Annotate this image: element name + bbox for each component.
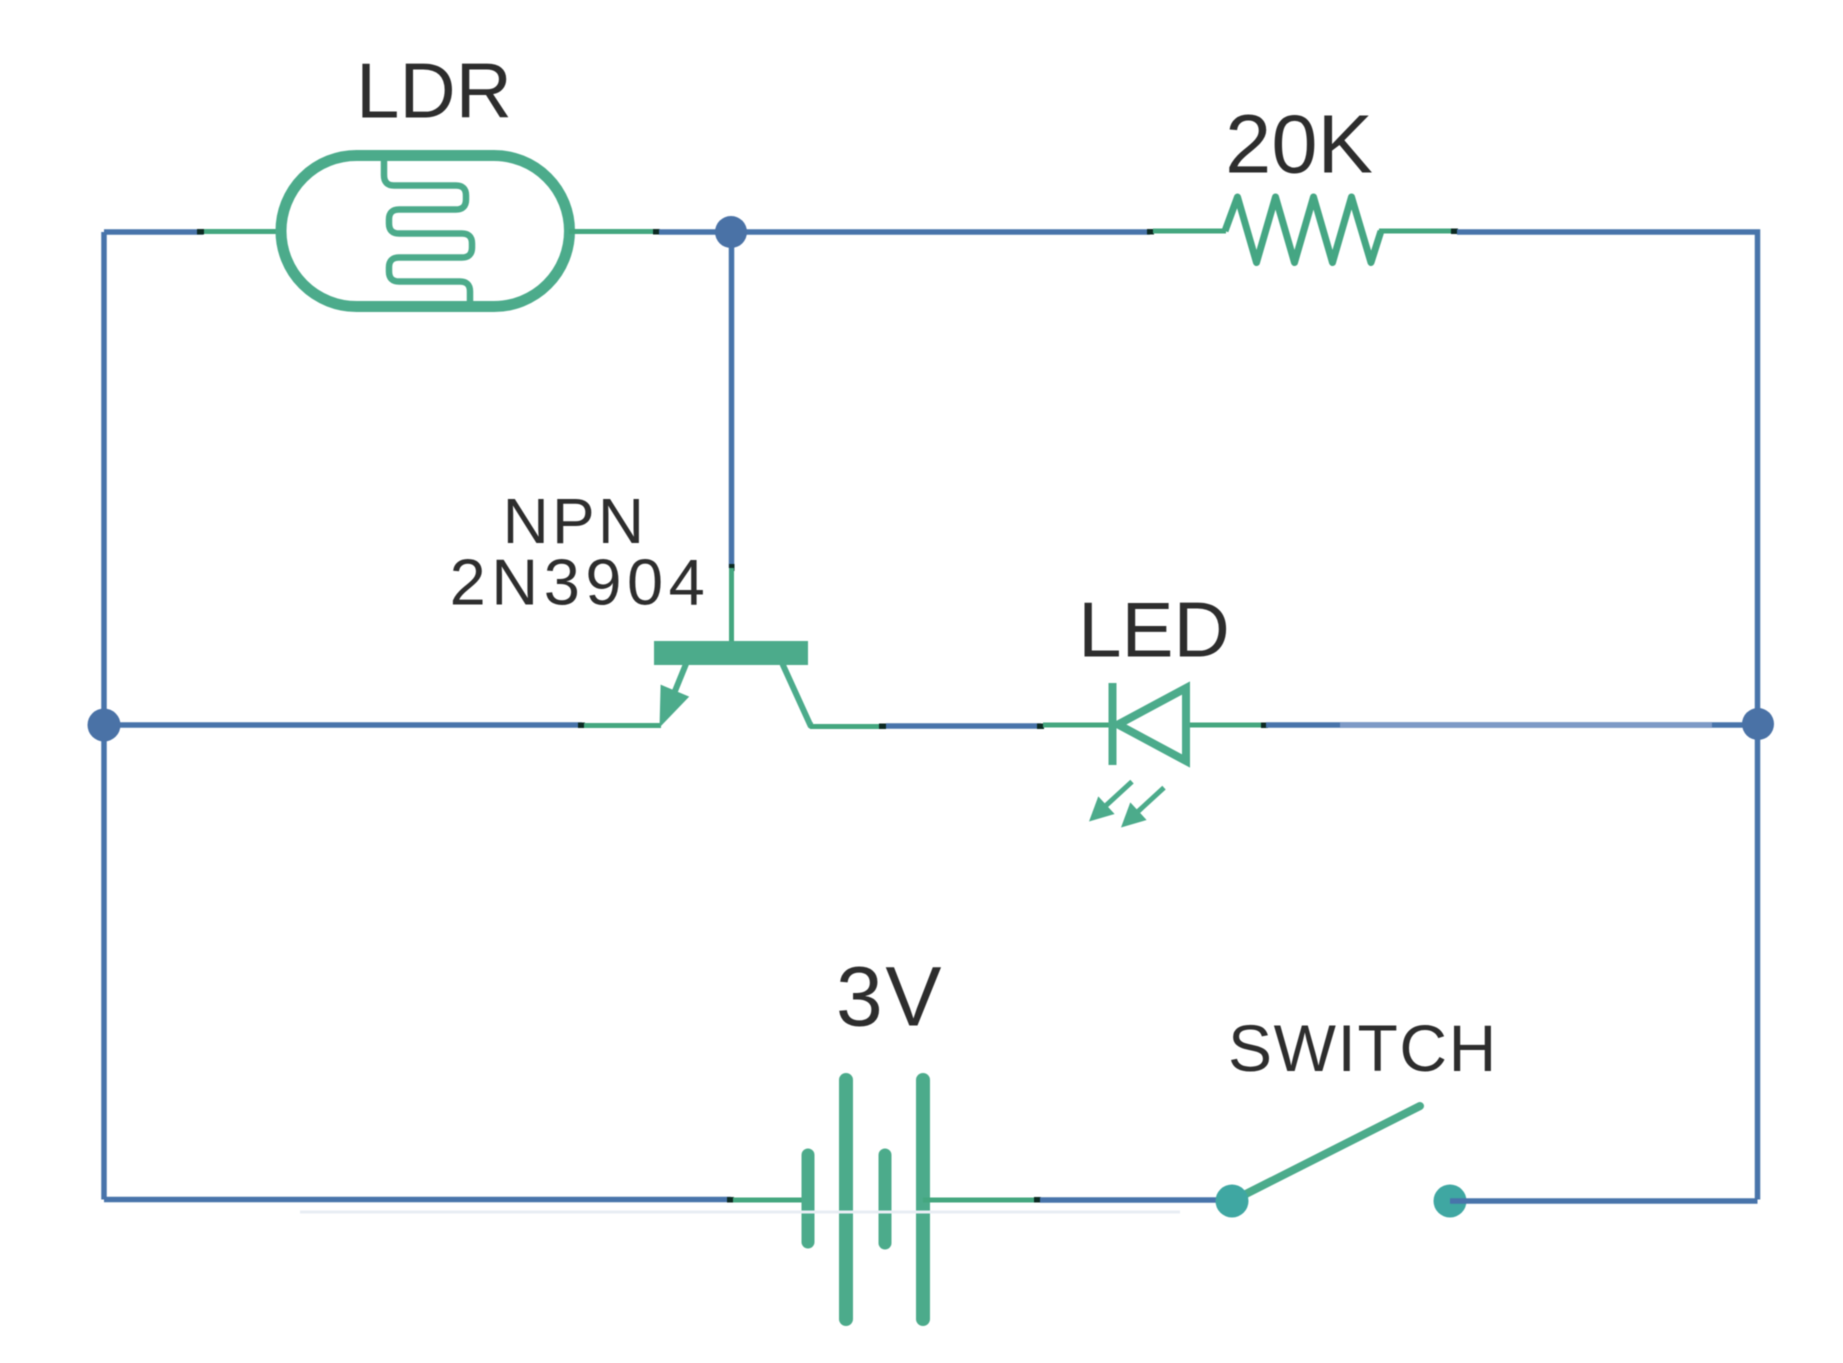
node transition dot D bbox=[1451, 229, 1458, 235]
wire resistor left green lead bbox=[1153, 229, 1226, 234]
label 3V bbox=[836, 950, 944, 1044]
wire battery right green lead bbox=[923, 1198, 1037, 1203]
battery 3V plate short 1 bbox=[802, 1155, 815, 1242]
wire LDR right green lead bbox=[569, 229, 657, 234]
photoresistor LDR serpentine element bbox=[384, 151, 472, 308]
wire resistor right green lead bbox=[1379, 229, 1455, 234]
node transition dot F bbox=[578, 723, 585, 729]
node junction dot top bbox=[715, 216, 747, 248]
wire middle right light blue overlap bbox=[1340, 722, 1712, 728]
label NPN bbox=[503, 485, 648, 557]
battery 3V plate short 2 bbox=[879, 1155, 892, 1243]
photoresistor LDR body bbox=[281, 156, 570, 307]
wire bottom middle blue segment bbox=[1040, 1197, 1232, 1203]
wire base vertical green lead bbox=[729, 568, 734, 642]
svg-text:SWITCH: SWITCH bbox=[1228, 1011, 1498, 1085]
wire LED left green lead bbox=[1043, 723, 1110, 728]
wire collector green lead bbox=[810, 724, 883, 729]
wire top horizontal blue left segment bbox=[104, 229, 203, 235]
node transition dot K bbox=[1034, 1197, 1041, 1203]
node transition dot C bbox=[1147, 229, 1154, 235]
node transition dot J bbox=[727, 1197, 734, 1203]
battery 3V plate tall 2 bbox=[916, 1080, 930, 1319]
LED light arrow 2 bbox=[1121, 788, 1164, 828]
wire left vertical blue segment bbox=[101, 232, 107, 1200]
node transition dot A bbox=[197, 229, 204, 235]
wire right vertical lower blue segment bbox=[1755, 724, 1761, 1200]
svg-text:2N3904: 2N3904 bbox=[450, 545, 711, 618]
label SWITCH bbox=[1228, 1011, 1498, 1085]
wire base vertical blue segment bbox=[729, 232, 735, 568]
label 20K bbox=[1225, 98, 1373, 191]
LED cathode bar bbox=[1109, 683, 1117, 765]
wire top middle blue segment bbox=[659, 229, 1150, 235]
transistor emitter line with arrow bbox=[660, 664, 690, 728]
svg-text:20K: 20K bbox=[1225, 98, 1373, 191]
battery 3V plate tall 1 bbox=[839, 1080, 853, 1319]
wire emitter green lead bbox=[584, 723, 661, 728]
node transition dot B bbox=[653, 229, 660, 235]
LED light arrow 1 bbox=[1089, 782, 1132, 822]
switch pole dot left bbox=[1216, 1185, 1249, 1218]
switch lever bbox=[1232, 1106, 1420, 1201]
wire middle blue segment between transistor and LED bbox=[886, 723, 1041, 729]
LED triangle bbox=[1118, 688, 1186, 761]
switch pole dot right bbox=[1434, 1185, 1467, 1218]
wire top right blue segment bbox=[1457, 232, 1758, 724]
node transition dot H bbox=[1037, 724, 1044, 730]
transistor NPN 2N3904 base bar bbox=[654, 641, 808, 665]
transistor collector line bbox=[783, 664, 814, 726]
wire bottom faint shadow line bbox=[300, 1211, 1180, 1214]
wire LED right green lead bbox=[1190, 723, 1264, 728]
resistor 20K zigzag bbox=[1225, 197, 1381, 263]
svg-text:3V: 3V bbox=[836, 950, 944, 1044]
wire middle left blue segment bbox=[104, 722, 582, 728]
node transition dot G bbox=[879, 724, 886, 730]
label LDR bbox=[356, 47, 512, 135]
node junction dot right bbox=[1742, 708, 1774, 740]
wire bottom right blue segment bbox=[1450, 1198, 1758, 1204]
wire middle right blue segment bbox=[1266, 722, 1758, 728]
label 2N3904 bbox=[450, 545, 711, 618]
wire battery left green lead bbox=[733, 1198, 809, 1203]
wire bottom left blue segment bbox=[104, 1197, 731, 1203]
svg-text:LED: LED bbox=[1078, 585, 1230, 673]
wire LDR left green lead bbox=[199, 229, 282, 234]
svg-text:LDR: LDR bbox=[356, 47, 512, 135]
node junction dot left bbox=[88, 709, 121, 742]
label LED bbox=[1078, 585, 1230, 673]
node transition dot I bbox=[1261, 723, 1268, 729]
node transition dot E bbox=[729, 564, 735, 571]
